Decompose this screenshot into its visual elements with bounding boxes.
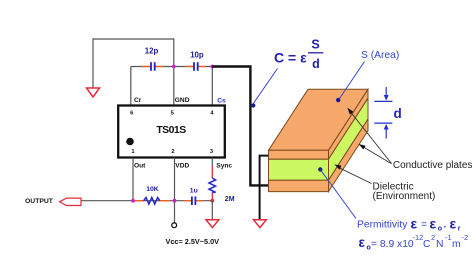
svg-text:Cs: Cs	[217, 97, 226, 104]
side face dielectric strip	[329, 98, 369, 180]
dimension d arrows	[374, 87, 401, 139]
pin label Out	[134, 162, 146, 169]
front face top plate strip	[269, 150, 329, 159]
wire pin4 Cs vertical	[211, 67, 213, 107]
resistor R2 2M (vertical)	[209, 178, 235, 203]
capacitor C3 1u	[184, 188, 204, 206]
svg-text:m: m	[452, 239, 461, 250]
capacitor 3D model: top face (top conductive plate)	[269, 89, 369, 150]
label Vcc value	[166, 237, 220, 246]
wire from GND pin up and over to ground symbol	[93, 39, 174, 88]
svg-text:2: 2	[431, 233, 435, 242]
leader line formula to sensor wire	[251, 69, 277, 108]
junction dot at GND/cap node	[172, 65, 176, 69]
front face dielectric strip	[269, 159, 329, 180]
svg-text:10p: 10p	[190, 51, 204, 60]
svg-text:S (Area): S (Area)	[361, 50, 399, 61]
capacitor C1 12p	[142, 47, 164, 71]
svg-text:d: d	[312, 57, 320, 71]
label Dielectric (Environment)	[373, 182, 436, 203]
leader line dielectric dot to Permittivity	[318, 167, 356, 218]
svg-text:C = ε: C = ε	[274, 50, 307, 66]
svg-text:ε: ε	[450, 216, 457, 232]
ground (below 2M, red triangle)	[206, 220, 219, 228]
svg-text:-12: -12	[413, 233, 424, 242]
label Conductive plates	[393, 160, 473, 171]
svg-text:TS01S: TS01S	[156, 124, 186, 136]
pin label Sync	[216, 162, 232, 169]
svg-text:= 8.9 x10: = 8.9 x10	[371, 239, 414, 250]
leader line to top plate	[347, 108, 391, 164]
label S (Area)	[361, 50, 399, 61]
svg-text:C: C	[423, 239, 431, 250]
side face bottom plate strip	[329, 119, 369, 192]
pin number 2	[171, 149, 174, 155]
svg-text:(Environment): (Environment)	[373, 191, 436, 202]
node Vcc open terminal	[172, 223, 177, 228]
op-amp U1 TS01S body	[118, 106, 225, 158]
pin label GND	[175, 97, 190, 104]
svg-text:Permittivity: Permittivity	[357, 220, 408, 231]
junction dot at Cs/cap node	[210, 65, 214, 69]
ground (sensor plate, red triangle)	[254, 220, 267, 228]
front face bottom plate strip	[269, 180, 329, 191]
leader line to bottom plate	[359, 144, 392, 164]
label Permittivity formula	[357, 216, 461, 233]
pin number 5	[171, 110, 175, 116]
side face top plate strip	[329, 89, 369, 159]
svg-text:Out: Out	[134, 162, 146, 169]
OUTPUT terminal arrow	[60, 198, 82, 205]
junction dot Out node	[131, 199, 135, 203]
wire pin5 GND vertical	[173, 67, 175, 107]
ground (left, red triangle)	[87, 88, 100, 97]
svg-text:10K: 10K	[146, 186, 159, 193]
svg-text:d: d	[394, 106, 402, 121]
leader line S to top face	[336, 62, 365, 103]
svg-text:o: o	[438, 226, 442, 233]
svg-text:Sync: Sync	[216, 162, 232, 169]
formula C = epsilon S/d	[274, 38, 323, 71]
svg-text:OUTPUT: OUTPUT	[25, 198, 54, 205]
pin label Cs	[217, 97, 226, 104]
svg-text:Conductive plates: Conductive plates	[393, 160, 473, 171]
wire pin1 Out vertical	[132, 158, 134, 201]
wire pin2 VDD vertical	[174, 158, 176, 223]
capacitor C2 10p	[186, 51, 207, 72]
svg-text:ε: ε	[359, 235, 366, 250]
svg-text:.: .	[444, 220, 447, 231]
pin number 1	[131, 149, 135, 155]
wire capacitor row (Cr to Cs line)	[131, 66, 213, 68]
wire thick sensor lead to bottom plate	[212, 67, 268, 186]
svg-text:ε: ε	[411, 216, 418, 232]
svg-text:S: S	[311, 38, 319, 52]
svg-text:12p: 12p	[145, 47, 159, 56]
label epsilon-0 value	[359, 233, 469, 251]
pin label VDD	[175, 162, 189, 169]
pin number 6	[130, 110, 134, 116]
svg-text:2M: 2M	[225, 196, 235, 203]
svg-text:ε: ε	[430, 216, 437, 232]
svg-text:GND: GND	[175, 97, 190, 104]
pin number 3	[210, 149, 214, 155]
svg-text:2: 2	[171, 149, 174, 155]
wire Sync to ground	[211, 201, 213, 220]
svg-text:-2: -2	[462, 233, 469, 242]
svg-text:r: r	[458, 226, 461, 233]
wire top plate to ground	[260, 156, 269, 220]
label OUTPUT	[25, 198, 54, 205]
svg-text:1u: 1u	[190, 188, 198, 195]
svg-text:Cr: Cr	[134, 97, 142, 104]
pin label Cr	[134, 97, 142, 104]
svg-text:Vcc= 2.5V~5.0V: Vcc= 2.5V~5.0V	[166, 237, 220, 246]
wire pin3 Sync vertical (red segments)	[211, 158, 213, 201]
pin number 4	[210, 110, 214, 116]
wire output row	[81, 200, 212, 202]
svg-text:N: N	[436, 239, 443, 250]
svg-text:-1: -1	[445, 233, 452, 242]
svg-text:=: =	[421, 220, 427, 231]
junction dot Sync node	[210, 199, 214, 203]
wire pin6 Cr vertical	[130, 67, 132, 107]
svg-text:VDD: VDD	[175, 162, 189, 169]
leader line to dielectric	[334, 164, 371, 183]
resistor R1 10K (horizontal)	[135, 186, 170, 204]
junction dot VDD node	[173, 199, 177, 203]
